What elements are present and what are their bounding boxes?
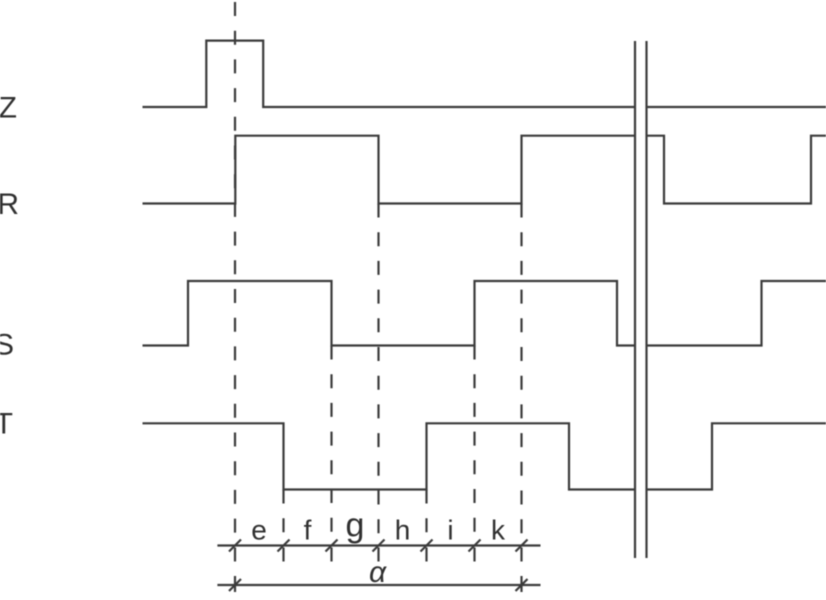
dimension ticks on alpha line <box>229 579 241 591</box>
dashed marker line at x=235 (centre of Z pulse / R rising edge) <box>234 2 236 545</box>
dashed marker line at x=426.5 (T rising edge) <box>425 490 427 546</box>
dashed marker line at x=331.5 (S falling edge) <box>330 346 332 546</box>
dashed marker line at x=521.5 (second R rising edge) <box>520 204 522 546</box>
signal S waveform (right of break) <box>647 281 826 346</box>
signal Z waveform (right of break) <box>647 106 826 108</box>
svg-text:g: g <box>346 507 365 545</box>
break line left <box>634 41 636 558</box>
signal Z waveform (left of break) <box>143 41 636 107</box>
svg-text:T: T <box>0 408 13 441</box>
dimension line e..k <box>217 544 540 546</box>
dashed marker line at x=283.5 (T falling edge) <box>282 490 284 546</box>
dashed marker line at x=378.5 (R falling edge) <box>377 204 379 546</box>
svg-text:i: i <box>447 515 453 546</box>
svg-text:e: e <box>251 515 267 546</box>
signal R waveform (right of break) <box>647 136 826 204</box>
signal R waveform (left of break) <box>143 136 636 204</box>
dimension ticks on e..k line <box>229 540 241 552</box>
svg-text:Z: Z <box>0 92 17 125</box>
dashed marker line at x=474.5 (S rising edge) <box>473 346 475 546</box>
break line right <box>645 41 647 558</box>
svg-text:h: h <box>395 515 411 546</box>
svg-text:R: R <box>0 188 19 221</box>
svg-text:α: α <box>369 556 387 589</box>
signal T waveform (right of break) <box>647 423 826 489</box>
signal T waveform (left of break) <box>143 423 636 489</box>
svg-text:S: S <box>0 329 14 362</box>
dimension line alpha <box>217 584 540 586</box>
signal S waveform (left of break) <box>143 281 636 346</box>
svg-text:k: k <box>491 515 506 546</box>
svg-text:f: f <box>304 515 312 546</box>
